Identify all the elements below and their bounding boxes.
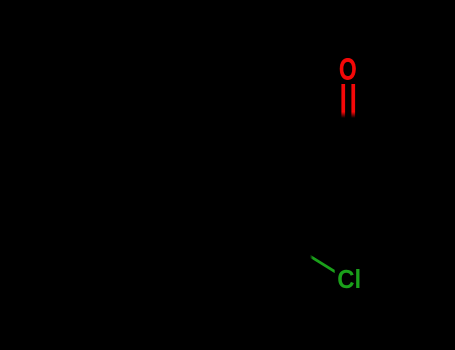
svg-text:O: O: [339, 51, 357, 86]
svg-text:Cl: Cl: [337, 265, 361, 294]
carbonyl C=O double bond (two red vertical lines, fading at bottom): [341, 84, 345, 118]
C-Cl bond (green diagonal line, faded tip at upper-left): [310, 255, 335, 274]
